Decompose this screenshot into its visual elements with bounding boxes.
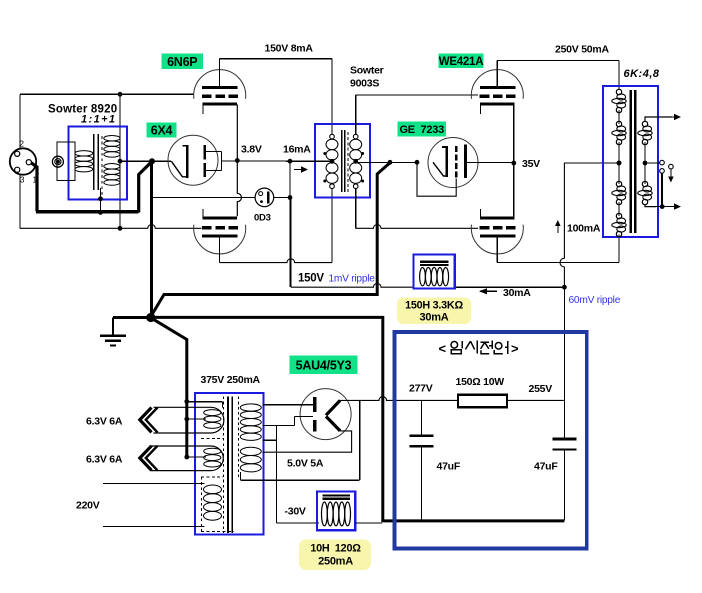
svg-text:5.0V 5A: 5.0V 5A: [287, 458, 324, 470]
svg-text:-30V: -30V: [285, 506, 306, 518]
svg-text:5AU4/5Y3: 5AU4/5Y3: [296, 358, 352, 372]
svg-text:6.3V 6A: 6.3V 6A: [86, 454, 123, 466]
svg-text:60mV ripple: 60mV ripple: [569, 295, 621, 306]
svg-text:47uF: 47uF: [534, 460, 558, 472]
svg-text:GE 7233: GE 7233: [400, 124, 445, 136]
svg-text:Sowter: Sowter: [350, 65, 384, 77]
svg-text:150Ω 10W: 150Ω 10W: [456, 376, 505, 388]
svg-text:16mA: 16mA: [283, 144, 311, 156]
svg-text:6X4: 6X4: [151, 124, 173, 138]
svg-text:277V: 277V: [409, 383, 433, 395]
svg-text:250mA: 250mA: [318, 556, 353, 568]
svg-text:>: >: [511, 341, 519, 356]
svg-text:<: <: [439, 341, 447, 356]
svg-text:10H 120Ω: 10H 120Ω: [310, 543, 361, 555]
svg-text:35V: 35V: [522, 158, 540, 170]
svg-text:3.8V: 3.8V: [241, 143, 262, 155]
svg-text:375V 250mA: 375V 250mA: [201, 374, 261, 386]
svg-text:1mV ripple: 1mV ripple: [329, 274, 376, 285]
svg-text:150H 3.3KΩ: 150H 3.3KΩ: [405, 300, 463, 312]
svg-text:6K:4,8: 6K:4,8: [624, 68, 660, 80]
svg-text:30mA: 30mA: [503, 287, 531, 299]
svg-text:150V 8mA: 150V 8mA: [265, 43, 314, 55]
svg-text:0D3: 0D3: [254, 213, 271, 224]
svg-text:100mA: 100mA: [567, 223, 601, 235]
svg-text:6N6P: 6N6P: [167, 55, 197, 69]
svg-text:9003S: 9003S: [350, 78, 379, 90]
svg-text:30mA: 30mA: [420, 312, 449, 324]
svg-text:47uF: 47uF: [437, 460, 461, 472]
svg-text:WE421A: WE421A: [439, 56, 484, 68]
svg-text:1:1+1: 1:1+1: [81, 114, 116, 126]
svg-text:250V 50mA: 250V 50mA: [555, 44, 609, 56]
svg-text:220V: 220V: [76, 500, 100, 512]
svg-text:150V: 150V: [298, 273, 324, 285]
svg-text:6.3V 6A: 6.3V 6A: [86, 416, 123, 428]
svg-text:255V: 255V: [529, 383, 553, 395]
